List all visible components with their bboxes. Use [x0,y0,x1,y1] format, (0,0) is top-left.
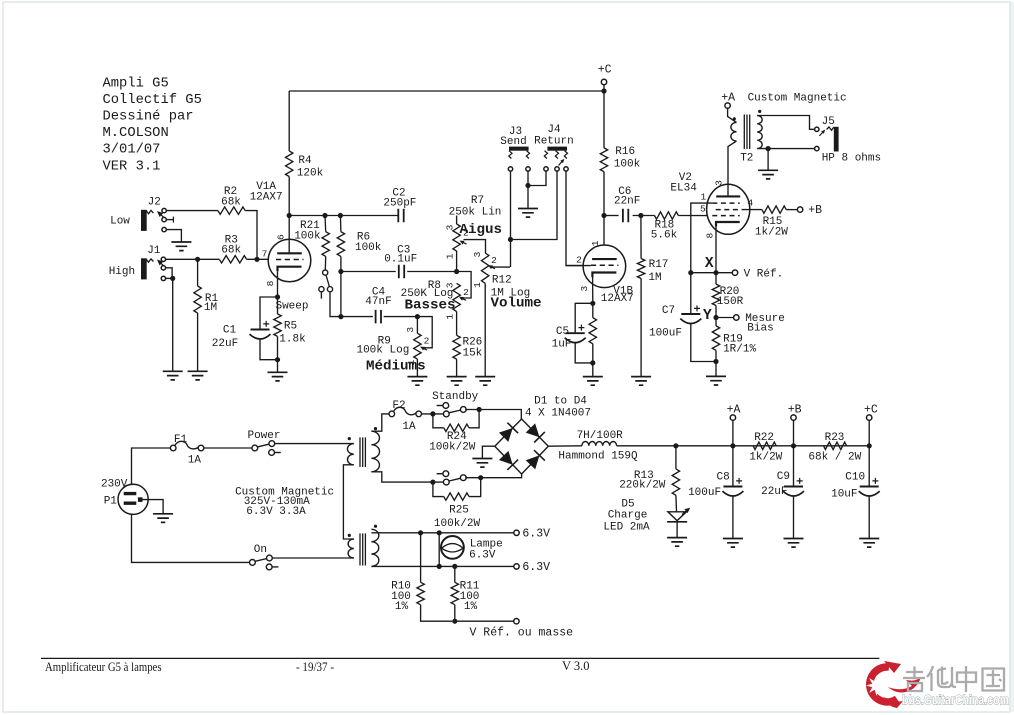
svg-text:3: 3 [405,327,416,333]
ground P1 [153,514,173,523]
wire R9 top lead [416,317,418,334]
wire X to R20 [715,273,717,284]
ground R17 [631,377,651,386]
junction C4 line [338,314,343,319]
J5 sleeve contact [815,146,819,150]
capacitor C4 [376,310,381,324]
svg-text:100k/2W: 100k/2W [434,518,481,530]
svg-text:C5: C5 [556,326,569,338]
wire to ground [767,149,769,171]
wire plate rail [289,215,398,217]
junction plate node [287,213,292,218]
junction C3 line [338,269,343,274]
bridge diamond [495,419,549,474]
J2 sleeve contact [162,227,166,231]
wire R21 lead [324,216,327,232]
junction R11 top [452,564,457,569]
ground J1 [163,371,183,380]
wire bus to terminal [455,620,514,622]
wire V1B grid lead [566,265,591,267]
svg-text:120k: 120k [297,168,324,180]
wire +B lead [793,420,795,446]
T1 heater secondary winding [371,529,378,566]
wire R2 to grid node [245,211,257,260]
wire g2 to R15 [742,209,762,211]
wire J2 ring stub [166,219,173,221]
J2 ring stub tick [172,217,174,223]
svg-text:3: 3 [444,282,455,288]
wire R6 to C3/C4 lines [340,256,342,316]
wire P1 to F1 [132,448,171,484]
svg-text:3: 3 [579,286,590,292]
resistor R4 [286,151,293,177]
ground D5 [667,538,687,547]
capacitor C1 [250,321,271,339]
wire HT top to F2 [371,414,389,431]
svg-text:6.3V: 6.3V [469,550,496,562]
wire to C5 [575,303,593,333]
wire R14 to ground [592,344,594,377]
junction V1B cathode [590,301,595,306]
wire Y to bias terminal [716,317,734,319]
capacitor C9 [783,478,804,496]
terminal +C [601,79,606,84]
svg-text:15k: 15k [462,347,482,359]
jack J2 [142,210,164,230]
inductor L1 choke [582,441,617,445]
potentiometer R12 [482,253,489,283]
J4 ring contact [555,167,559,171]
resistor R2 [218,207,245,214]
wire J1 ring to sleeve [166,268,173,276]
junction R19/C7 [713,359,718,364]
svg-text:1: 1 [472,282,483,288]
svg-text:On: On [254,544,267,556]
svg-text:+B: +B [808,204,822,217]
junction J1 sleeve [170,276,175,281]
T2 secondary phase dot [758,110,761,113]
terminal +B [797,207,802,212]
svg-text:250pF: 250pF [383,197,416,209]
J3 tip contact [508,167,512,171]
junction R13 [673,443,678,448]
wire cathode to R14 [592,303,594,317]
svg-text:1M: 1M [204,302,217,314]
junction C6 [601,213,606,218]
terminal 6.3V top [514,530,519,535]
T1 lower primary phase dot [348,534,351,537]
wire R25 right leg [469,478,481,497]
J4 ring contact squiggle [555,151,558,159]
svg-text:100uF: 100uF [649,327,682,339]
T1 core lower [360,533,365,565]
R12 wiper arrow [488,265,495,269]
wire C10 to ground [868,496,870,539]
wire T2 secondary bottom to J5 [757,148,814,150]
svg-text:1k/2W: 1k/2W [749,451,782,463]
ground R19/C7 [706,376,726,385]
svg-text:12AX7: 12AX7 [250,192,283,204]
ground R5/C1 [268,372,288,381]
T2 core [744,115,749,150]
J4 switch arrow [559,159,565,166]
svg-text:5.6k: 5.6k [651,230,678,242]
wire On switch to T1 [272,557,354,559]
svg-text:Y: Y [703,308,712,324]
svg-text:10uF: 10uF [831,488,857,500]
svg-text:47nF: 47nF [365,296,391,308]
wire standby pole2 to bridge bottom [465,474,521,478]
wire lamp leads [438,533,440,567]
diode D4 [526,450,545,469]
switch Sweep [319,270,333,299]
resistor R5 [274,314,281,337]
wire R17 to ground [640,279,642,377]
svg-text:1R/1%: 1R/1% [723,344,756,356]
potentiometer R7 [453,224,460,251]
svg-text:Ampli G5: Ampli G5 [103,75,169,91]
wire R18 to V2 g1 [678,215,712,217]
ground R1 [188,371,208,380]
ground C9 [784,539,804,548]
jack J3 bar [509,147,529,151]
wire rail to R13 [675,446,677,469]
svg-text:100k Log: 100k Log [356,345,409,357]
resistor R6 [337,232,344,257]
T1 primary phase dot [348,437,351,440]
switch On [250,555,279,570]
wire node A to R1 [197,259,199,286]
svg-text:T2: T2 [740,153,753,165]
J4 tip contact squiggle [564,151,567,159]
resistor R10 [417,582,424,604]
svg-text:C9: C9 [777,471,790,483]
wire R8 to R26 [456,312,458,336]
T1 HT secondary winding [371,431,379,472]
resistor R26 [453,335,460,359]
potentiometer R8 [453,283,460,311]
terminal +B bottom [791,415,796,420]
resistor R20 [712,284,719,305]
wire to R4 [288,91,290,151]
junction +B [791,443,796,448]
svg-text:Amplificateur G5 à lampes: Amplificateur G5 à lampes [45,660,162,674]
svg-text:5: 5 [700,203,706,214]
svg-text:Power: Power [247,430,280,442]
ground T2 [758,170,778,179]
wire R10 to bus [421,605,452,622]
svg-text:Charge: Charge [608,510,648,522]
J2 ring contact [162,217,166,221]
wire R15 to +B [786,209,797,211]
svg-text:6: 6 [276,234,287,240]
svg-text:High: High [109,266,135,278]
junction J3/J4 [508,237,513,242]
svg-text:J4: J4 [547,124,561,136]
wire V1A plate lead [288,216,290,254]
wire R16 to V1B plate [603,172,605,259]
wire J2 tip to R2 [164,210,218,212]
svg-text:R4: R4 [298,155,312,167]
terminal +C bottom [867,415,872,420]
svg-text:2: 2 [463,287,469,298]
wire C7 to ground node [691,324,716,362]
svg-text:Bias: Bias [747,323,773,335]
J5 switch arrow [819,130,825,136]
T1 primary winding lower [348,539,354,558]
junction V1A cathode [275,294,280,299]
junction R21 top [322,213,327,218]
jack J1 [142,259,164,279]
wire +C lead [868,420,870,446]
ground J2 [171,242,191,251]
junction J3 sleeve [525,183,530,188]
svg-text:Custom Magnetic: Custom Magnetic [748,93,847,105]
R9 wiper arrow [420,347,427,351]
svg-text:1k/2W: 1k/2W [755,227,788,239]
wire R1 to ground [197,313,199,371]
wire +C down [603,85,605,148]
svg-text:C1: C1 [223,325,237,337]
svg-text:Volume: Volume [490,296,541,312]
terminal 6.3V bottom [514,564,519,569]
wire top supply rail [289,90,604,92]
J1 tip contact [161,257,165,261]
wire R25 left leg [433,482,444,497]
resistor R19 [712,326,719,350]
svg-text:D1 to D4: D1 to D4 [534,396,587,408]
svg-text:0.1uF: 0.1uF [384,254,417,266]
wire R26 to ground [456,359,458,377]
J3 sleeve contact [526,167,530,171]
svg-text:68k: 68k [221,245,241,257]
ground R12 [475,377,495,386]
triode V1B [583,245,626,288]
wire R20 to Y [715,306,717,326]
svg-text:4: 4 [747,198,753,209]
svg-text:7H/100R: 7H/100R [577,430,624,442]
svg-text:100uF: 100uF [688,487,721,499]
wire T2 secondary top to J5 [757,116,814,130]
wire J1 sleeve to ground [172,278,174,371]
svg-text:100k: 100k [294,231,321,243]
svg-text:1%: 1% [464,601,478,613]
wire g3 to cathode node [691,203,713,273]
wire P1 earth [143,500,164,514]
svg-text:Hammond 159Q: Hammond 159Q [558,451,638,463]
junction T2 secondary ground [766,146,771,151]
svg-text:J2: J2 [148,197,161,209]
junction R24 left [430,411,435,416]
svg-text:Basses: Basses [404,298,455,314]
lamp 6.3V [441,536,464,559]
svg-text:22nF: 22nF [614,196,640,208]
wire C6 to R18 [633,215,655,217]
svg-text:2: 2 [424,336,430,347]
wire X rail [691,272,733,274]
junction lamp top [437,530,442,535]
T1 primary winding upper [347,444,353,465]
svg-text:4 X 1N4007: 4 X 1N4007 [525,408,591,420]
svg-text:2: 2 [463,228,469,239]
svg-text:1: 1 [406,359,417,365]
junction Y [713,315,718,320]
junction R6 top [338,213,343,218]
resistor R18 [655,212,679,219]
wire 6.3V top [371,532,513,534]
wire to ground [527,186,529,209]
wire cathode to R5 [277,297,279,314]
svg-text:V 3.0: V 3.0 [562,659,590,673]
svg-text:1A: 1A [402,421,416,433]
junction R5/C1 [275,357,280,362]
svg-text:+C: +C [864,404,878,417]
J3 tip contact squiggle [509,151,512,159]
node A junction [195,257,200,262]
capacitor C5 [565,325,586,343]
svg-text:Sweep: Sweep [275,300,308,312]
junction g3/C7 [688,270,693,275]
diode D1 [499,423,518,442]
wire R9 wiper loop [417,317,432,348]
wire sweep to C4 line [330,292,341,317]
wire 6.3V bottom [371,565,513,567]
wire R19 to ground [715,350,717,376]
svg-text:Collectif G5: Collectif G5 [103,92,202,108]
R8 wiper arrow [459,297,466,301]
svg-text:R12: R12 [492,275,512,287]
wire C3 to R7 bottom node [407,271,456,273]
svg-text:1: 1 [590,240,601,246]
wire to J4 ring contact [511,171,558,239]
svg-text:22uF: 22uF [761,486,787,498]
wire +A to C8 [732,446,734,487]
wire R12 wiper [492,266,510,268]
J3 sleeve contact squiggle [526,151,529,159]
potentiometer R9 [414,333,421,359]
ground J3/J4 [518,209,538,218]
wire C5 to ground node [575,343,593,363]
wire bridge negative to ground [482,446,494,458]
svg-text:C10: C10 [845,472,865,484]
svg-text:1: 1 [444,253,455,259]
svg-text:+C: +C [598,63,612,76]
wire V2 cathode down [715,227,717,273]
svg-text:68k / 2W: 68k / 2W [808,451,861,463]
wire to C1 [260,297,278,330]
svg-text:R22: R22 [754,432,774,444]
svg-text:J5: J5 [822,116,835,128]
J5 tip hook [827,127,834,130]
wire R12 to ground [484,283,486,376]
svg-text:8: 8 [265,280,276,286]
wire to R10 [420,533,422,583]
resistor R14 [589,318,596,344]
wire R3 to V1A grid [247,258,269,260]
wire J4 tip to V1B grid [566,171,583,266]
ground R14/C5 [583,377,603,386]
terminal V Ref [732,270,737,275]
junction R24 right [477,407,482,412]
svg-text:1uF: 1uF [552,339,572,351]
wire R7 bottom lead [456,251,458,272]
svg-text:R5: R5 [284,321,297,333]
resistor R24 [444,424,469,431]
svg-text:100k: 100k [355,242,382,254]
svg-text:LED 2mA: LED 2mA [603,521,650,533]
wire F1 to Power switch [204,447,252,449]
wire +A lead [732,420,734,446]
wire +A to T2 primary [728,108,737,122]
T1 HT secondary phase dot [374,427,377,430]
triode V1A [268,239,311,282]
wire Power switch to T1 [275,443,354,445]
svg-text:EL34: EL34 [670,183,697,195]
terminal V Ref ou masse [514,619,519,624]
svg-text:2: 2 [576,254,582,265]
svg-text:1: 1 [444,314,455,320]
J1 sleeve contact [161,276,165,280]
svg-text:Dessiné par: Dessiné par [103,109,194,125]
J4 sleeve contact squiggle [544,151,547,159]
wire R21 to sweep [324,256,326,270]
ground R9 [407,377,427,386]
wire C3 left [341,271,396,273]
J1 ring contact [161,266,165,270]
svg-text:1%: 1% [395,601,409,613]
wire +C to C10 [868,446,870,487]
resistor R21 [322,232,329,257]
junction lamp bottom [437,564,442,569]
wire J3 tip down [510,171,512,267]
resistor R1 [194,286,201,313]
T2 primary phase dot [733,117,736,120]
switch Standby pole 1 [437,403,467,417]
T2 primary winding [731,122,737,141]
resistor R11 [451,582,458,604]
wire standby to bridge top [465,410,521,420]
svg-text:Return: Return [534,136,574,148]
ground R26 [447,377,467,386]
wire R7 top lead [456,216,458,225]
junction R10 top [418,530,423,535]
svg-text:Lampe: Lampe [470,538,503,550]
svg-text:100k/2W: 100k/2W [429,441,476,453]
right margin tint [1011,2,1014,712]
svg-text:3/01/07: 3/01/07 [103,142,161,158]
junction +C rail [601,88,606,93]
svg-text:bbs.GuitarChina.com: bbs.GuitarChina.com [902,693,1009,708]
wire D5 to ground [676,522,678,538]
svg-text:R17: R17 [649,259,669,271]
J2 tip contact [162,208,166,212]
svg-text:1M: 1M [648,272,661,284]
terminal +A [730,415,735,420]
svg-text:Send: Send [500,136,526,148]
diode D3 [499,451,518,470]
junction R25 left [430,480,435,485]
J4 sleeve contact [544,167,548,171]
jack J5 bar [834,127,839,152]
svg-text:3: 3 [472,251,483,257]
resistor R16 [600,148,607,172]
svg-text:X: X [705,256,714,272]
svg-text:100k: 100k [614,159,641,171]
resistor R17 [637,259,644,279]
wire HT bottom to standby pole 2 [371,472,443,482]
wire J1 tip to node A [163,258,197,260]
resistor R3 [219,256,246,263]
